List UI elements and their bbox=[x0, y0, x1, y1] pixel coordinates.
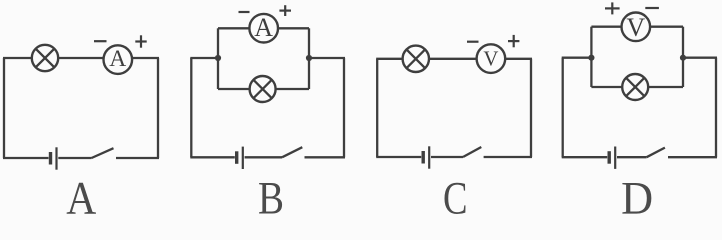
svg-text:D: D bbox=[621, 173, 653, 214]
svg-text:A: A bbox=[109, 46, 126, 72]
svg-text:A: A bbox=[66, 172, 96, 214]
svg-text:A: A bbox=[254, 13, 273, 42]
svg-text:V: V bbox=[483, 47, 498, 70]
svg-text:V: V bbox=[626, 13, 645, 42]
svg-text:C: C bbox=[443, 172, 468, 214]
svg-text:B: B bbox=[258, 172, 284, 214]
